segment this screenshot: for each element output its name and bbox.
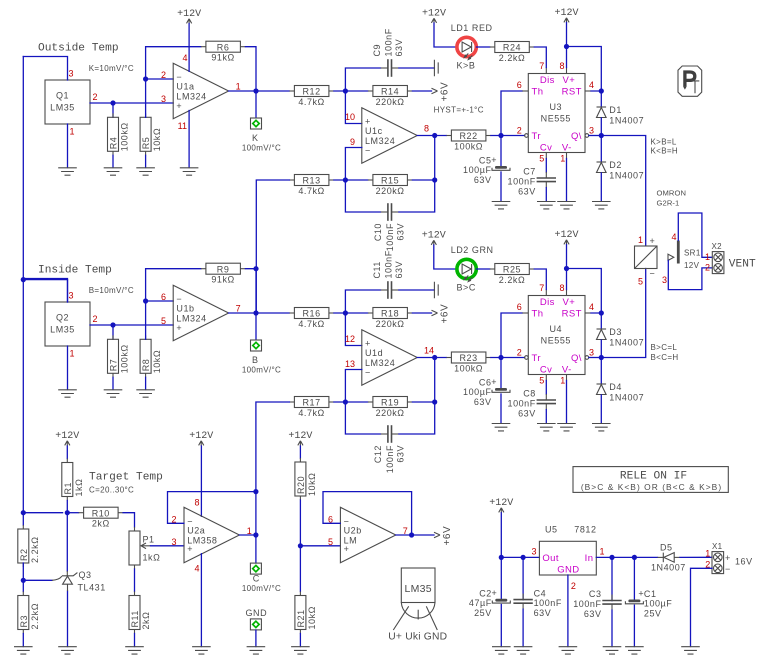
+12V supply at U2a xyxy=(189,431,213,446)
relay SR1 contact xyxy=(668,241,678,264)
svg-text:Out: Out xyxy=(542,553,559,564)
svg-text:1N4007: 1N4007 xyxy=(651,563,686,573)
svg-text:10kΩ: 10kΩ xyxy=(307,606,317,629)
wire V- pin to ground xyxy=(566,159,568,202)
svg-text:+12V: +12V xyxy=(55,431,79,442)
svg-text:220kΩ: 220kΩ xyxy=(376,97,405,107)
svg-text:1N4007: 1N4007 xyxy=(609,116,644,126)
+12V supply at U3 xyxy=(554,8,578,23)
wire U1a output to R12 xyxy=(229,90,290,92)
wire cap to AGND xyxy=(399,67,435,69)
wire R13 to Inside-Temp signal trunk xyxy=(256,180,289,313)
svg-text:+6V: +6V xyxy=(442,526,453,546)
svg-text:3: 3 xyxy=(662,275,667,285)
ground under D2 xyxy=(592,202,611,209)
svg-text:2: 2 xyxy=(517,348,522,358)
svg-text:C11: C11 xyxy=(372,261,382,279)
wire Cv pin down xyxy=(545,159,547,173)
svg-text:K: K xyxy=(252,133,259,143)
svg-text:LM35: LM35 xyxy=(404,583,431,595)
svg-text:R25: R25 xyxy=(503,265,521,275)
svg-text:+6V: +6V xyxy=(440,304,451,324)
ground under R11 xyxy=(125,647,144,654)
ground at U4 V- xyxy=(557,424,576,431)
svg-text:1N4007: 1N4007 xyxy=(609,393,644,403)
svg-text:63V: 63V xyxy=(394,39,404,57)
junction comparator +input node xyxy=(343,310,348,315)
svg-text:NE555: NE555 xyxy=(541,336,571,346)
wire U3 output to relay coil pin1 xyxy=(601,136,645,246)
junction RST/diode xyxy=(599,310,604,315)
svg-text:2: 2 xyxy=(93,92,98,102)
svg-text:OMRON: OMRON xyxy=(657,189,687,198)
svg-text:C10: C10 xyxy=(373,223,383,241)
ground at TL431 anode xyxy=(58,647,77,654)
wire C2 to ground xyxy=(500,605,502,647)
wire trunk to R2 xyxy=(22,513,24,525)
svg-text:Dis: Dis xyxy=(540,75,555,86)
svg-text:7812: 7812 xyxy=(574,525,596,535)
svg-text:2.2kΩ: 2.2kΩ xyxy=(30,603,40,630)
svg-text:R4: R4 xyxy=(109,137,119,150)
wire between input resistors xyxy=(334,312,368,314)
wire regulator input xyxy=(596,556,657,558)
capacitor C11 xyxy=(372,250,404,299)
svg-text:5: 5 xyxy=(328,537,333,547)
svg-text:Q3: Q3 xyxy=(79,570,92,580)
svg-text:100nF: 100nF xyxy=(385,223,395,251)
wire output to lower diode xyxy=(600,136,602,163)
wire node to U4 threshold xyxy=(501,313,522,358)
wire feedback resistor to output trunk xyxy=(245,47,256,91)
resistor R20 xyxy=(295,458,317,500)
ground under R3 xyxy=(14,647,33,654)
ground under R4 xyxy=(104,168,123,175)
svg-text:R14: R14 xyxy=(381,87,399,97)
svg-text:LD2 GRN: LD2 GRN xyxy=(451,245,494,255)
wire trunk to Q2 pin3 xyxy=(23,280,67,302)
svg-text:+: + xyxy=(491,588,497,598)
svg-text:C3: C3 xyxy=(589,589,602,599)
ground under C4 xyxy=(514,647,533,654)
svg-text:K>B=L: K>B=L xyxy=(651,138,677,147)
junction R9 feedback / signal trunk xyxy=(253,266,258,271)
logo PT xyxy=(678,66,702,96)
svg-text:1: 1 xyxy=(705,252,710,262)
LM35 package drawing xyxy=(388,568,447,643)
svg-text:3: 3 xyxy=(69,69,74,79)
wire R17 to Target-Temp signal trunk xyxy=(256,402,290,492)
svg-text:100µF: 100µF xyxy=(463,165,491,175)
wire +12V to V+ pin xyxy=(566,245,568,290)
junction feedback / R17 trunk xyxy=(253,489,258,494)
svg-text:RELE ON IF: RELE ON IF xyxy=(620,471,687,483)
svg-text:+: + xyxy=(365,339,371,349)
svg-text:V-: V- xyxy=(562,365,572,376)
resistor R11 xyxy=(129,592,151,634)
resistor R15 xyxy=(368,175,413,196)
resistor R4 xyxy=(108,113,130,155)
svg-text:D4: D4 xyxy=(609,382,622,392)
wire C2 top xyxy=(500,557,502,598)
+12V supply output xyxy=(489,498,513,513)
svg-text:LM35: LM35 xyxy=(50,103,75,113)
wire C1 top xyxy=(633,557,635,599)
svg-text:63V: 63V xyxy=(518,186,536,196)
capacitor C2 xyxy=(469,588,510,618)
svg-text:X1: X1 xyxy=(712,542,723,551)
junction comparator output xyxy=(432,355,437,360)
svg-text:−: − xyxy=(176,294,182,304)
wire to ground xyxy=(112,377,114,389)
resistor R3 xyxy=(18,592,40,634)
svg-text:100nF: 100nF xyxy=(573,599,601,609)
wire LED resistor to Dis pin xyxy=(534,47,546,68)
op-amp U1c xyxy=(362,108,417,163)
svg-text:3: 3 xyxy=(589,126,594,136)
svg-text:TL431: TL431 xyxy=(78,583,106,593)
svg-text:63V: 63V xyxy=(474,397,492,407)
op-amp U2b xyxy=(340,507,395,562)
wire -input up to feedback resistor xyxy=(146,269,201,301)
svg-text:+: + xyxy=(176,323,182,333)
svg-text:2: 2 xyxy=(571,581,576,591)
svg-text:2kΩ: 2kΩ xyxy=(141,612,151,630)
svg-text:2: 2 xyxy=(517,126,522,136)
wire to U1b -input xyxy=(146,300,174,302)
wire C4 to ground xyxy=(522,609,524,646)
wire X1 pin2 to ground xyxy=(691,568,713,646)
wire LED to resistor xyxy=(477,268,490,270)
svg-text:V+: V+ xyxy=(563,75,576,86)
diode D5 xyxy=(651,543,686,573)
wire timing cap to ground xyxy=(500,172,502,201)
wire C3 top xyxy=(611,557,613,600)
svg-text:2.2kΩ: 2.2kΩ xyxy=(499,53,526,63)
wire U1c output to R22 xyxy=(417,135,446,137)
junction R1/R10/TL431 xyxy=(65,510,70,515)
svg-text:U1c: U1c xyxy=(365,126,383,136)
ground under R21 xyxy=(291,647,310,654)
resistor R22 xyxy=(446,130,491,151)
svg-text:91kΩ: 91kΩ xyxy=(211,53,234,63)
svg-text:LM324: LM324 xyxy=(176,92,206,102)
wire diode to output node xyxy=(600,118,602,136)
svg-text:4: 4 xyxy=(589,80,594,90)
wire hysteresis resistor to output xyxy=(412,401,434,403)
relay SR1 coil xyxy=(635,236,658,279)
svg-text:LM324: LM324 xyxy=(365,136,395,146)
svg-text:U2b: U2b xyxy=(344,526,362,536)
svg-text:R23: R23 xyxy=(460,353,478,363)
svg-text:3: 3 xyxy=(171,537,176,547)
svg-text:U1d: U1d xyxy=(365,348,383,358)
wire to U4 trigger xyxy=(491,357,525,359)
svg-text:14: 14 xyxy=(424,346,434,356)
op-amp U1b xyxy=(173,285,228,340)
diode D2 xyxy=(597,160,645,181)
resistor R10 xyxy=(79,507,124,528)
junction hysteresis node xyxy=(432,399,437,404)
capacitor C10 xyxy=(373,203,406,251)
terminal pad K xyxy=(251,118,262,129)
svg-text:4.7kΩ: 4.7kΩ xyxy=(298,186,325,196)
svg-text:6: 6 xyxy=(517,302,522,312)
wire U4 output to relay coil pin5 xyxy=(601,269,645,358)
svg-text:8: 8 xyxy=(559,61,564,71)
+12V supply at R1 xyxy=(55,431,79,446)
wire reference node to trunk xyxy=(23,512,62,514)
wire between input resistors xyxy=(334,90,368,92)
svg-text:63V: 63V xyxy=(396,445,406,463)
timer U3 xyxy=(517,61,594,164)
wire Q2 output to U1b +input xyxy=(90,324,173,326)
svg-text:1: 1 xyxy=(70,127,75,137)
connector X2 xyxy=(712,252,724,274)
wire R3 to ground xyxy=(22,634,24,647)
svg-text:5: 5 xyxy=(161,316,166,326)
wire node to R10 xyxy=(67,512,78,514)
wire cap to AGND xyxy=(399,289,435,291)
svg-text:R18: R18 xyxy=(381,309,399,319)
ground under C1 xyxy=(625,647,644,654)
wire U1a pin11 to ground xyxy=(188,111,190,168)
ground at U3 V- xyxy=(557,202,576,209)
junction comparator +input node xyxy=(343,88,348,93)
svg-text:Q\: Q\ xyxy=(571,353,582,364)
voltage regulator U5 7812 xyxy=(539,525,596,576)
capacitor C8 xyxy=(508,389,556,419)
ground at U5 GND xyxy=(559,647,578,654)
wire Q1 pin3 to +12V trunk xyxy=(23,57,67,81)
wire between lower resistors xyxy=(334,179,368,181)
wire LED resistor to Dis pin xyxy=(534,269,546,290)
svg-text:R15: R15 xyxy=(381,176,399,186)
wire U5 GND to ground xyxy=(567,575,569,647)
svg-text:GND: GND xyxy=(245,608,267,618)
junction output trunk xyxy=(253,88,258,93)
svg-text:B=10mV/°C: B=10mV/°C xyxy=(89,286,134,295)
junction comparator -input node xyxy=(343,177,348,182)
wire +12V rail down xyxy=(500,513,502,558)
wire R8 to -input node xyxy=(145,301,147,339)
svg-text:2: 2 xyxy=(93,314,98,324)
svg-text:7: 7 xyxy=(539,61,544,71)
svg-text:100nF: 100nF xyxy=(534,598,562,608)
junction trunk / Q2 branch xyxy=(21,277,26,282)
svg-text:100µF: 100µF xyxy=(463,387,491,397)
wire divider to TL431 ref xyxy=(23,579,52,581)
wire hysteresis cap to output trunk xyxy=(399,402,435,434)
svg-text:−: − xyxy=(650,269,656,279)
resistor R5 xyxy=(140,113,162,155)
wire hysteresis to comparator output xyxy=(434,136,436,181)
svg-text:GND: GND xyxy=(557,565,579,576)
svg-text:R22: R22 xyxy=(460,131,478,141)
wire +12V to V+ pin xyxy=(566,23,568,68)
svg-text:25V: 25V xyxy=(474,608,492,618)
wire R2 to R3 xyxy=(22,563,24,592)
svg-text:2.2kΩ: 2.2kΩ xyxy=(499,275,526,285)
junction -input / feedback xyxy=(143,76,148,81)
temp sensor Q2 LM35 xyxy=(45,302,90,346)
wire divider to R21 xyxy=(299,546,301,592)
svg-text:2.2kΩ: 2.2kΩ xyxy=(30,537,40,564)
wire diode to output node xyxy=(600,340,602,358)
svg-text:U+ Uki GND: U+ Uki GND xyxy=(388,632,447,643)
ground under R5 xyxy=(136,168,155,175)
wire Q2 pin1 to ground xyxy=(67,346,69,390)
svg-text:1kΩ: 1kΩ xyxy=(74,479,84,497)
junction C4 tap xyxy=(521,555,526,560)
capacitor C5 xyxy=(463,155,510,185)
svg-text:7: 7 xyxy=(539,283,544,293)
svg-text:+: + xyxy=(650,236,656,246)
wire node to timing cap xyxy=(500,136,502,166)
svg-text:U2a: U2a xyxy=(187,526,205,536)
resistor R6 xyxy=(201,41,246,62)
svg-text:RST: RST xyxy=(562,309,582,320)
svg-text:R24: R24 xyxy=(503,43,521,53)
+6V rail arrow xyxy=(432,304,451,324)
svg-text:1N4007: 1N4007 xyxy=(609,338,644,348)
op-amp U1d xyxy=(362,330,417,385)
svg-text:10kΩ: 10kΩ xyxy=(152,128,162,151)
svg-text:4: 4 xyxy=(671,232,676,242)
svg-text:+12V: +12V xyxy=(489,498,513,509)
svg-text:K=10mV/°C: K=10mV/°C xyxy=(89,64,134,73)
svg-text:100kΩ: 100kΩ xyxy=(454,141,483,151)
wire node down to +input pin xyxy=(345,313,361,346)
wire node to timing cap xyxy=(500,358,502,388)
svg-text:4.7kΩ: 4.7kΩ xyxy=(298,319,325,329)
svg-text:R5: R5 xyxy=(141,137,151,150)
capacitor C1 xyxy=(625,589,672,619)
svg-text:+: + xyxy=(491,155,497,165)
svg-text:5: 5 xyxy=(539,154,544,164)
wire to ground xyxy=(145,377,147,389)
svg-text:10: 10 xyxy=(345,112,355,122)
wire R10 to potentiometer xyxy=(123,513,134,527)
svg-text:B<C=H: B<C=H xyxy=(651,353,679,362)
svg-text:U1b: U1b xyxy=(176,304,194,314)
svg-text:4: 4 xyxy=(182,53,187,63)
svg-text:D3: D3 xyxy=(609,327,622,337)
svg-text:91kΩ: 91kΩ xyxy=(211,275,234,285)
wire left supply trunk upper xyxy=(22,57,24,280)
svg-text:Target Temp: Target Temp xyxy=(89,472,163,484)
wire to regulator output xyxy=(501,556,539,558)
wire Cv pin down xyxy=(545,381,547,395)
svg-text:3: 3 xyxy=(69,291,74,301)
potentiometer P1 xyxy=(129,527,160,569)
svg-text:Q2: Q2 xyxy=(56,313,69,323)
resistor R21 xyxy=(295,592,317,634)
capacitor C6 xyxy=(463,377,510,407)
svg-text:4.7kΩ: 4.7kΩ xyxy=(298,408,325,418)
svg-text:1: 1 xyxy=(705,549,710,559)
junction hysteresis node xyxy=(432,177,437,182)
resistor R12 xyxy=(289,86,334,107)
svg-text:C6: C6 xyxy=(479,378,492,388)
wire RST to diode xyxy=(600,313,602,329)
diode D4 xyxy=(597,382,645,403)
wire U2a feedback xyxy=(168,492,256,524)
svg-text:+12V: +12V xyxy=(422,231,446,242)
svg-text:C4: C4 xyxy=(534,588,547,598)
svg-text:3: 3 xyxy=(161,94,166,104)
diode D1 xyxy=(597,105,645,126)
junction comparator -input node xyxy=(343,399,348,404)
svg-text:R7: R7 xyxy=(109,359,119,372)
svg-text:R9: R9 xyxy=(217,264,230,274)
+6V rail source arrow xyxy=(434,526,453,546)
resistor R9 xyxy=(201,263,246,284)
terminal pad C xyxy=(250,563,261,574)
svg-text:D1: D1 xyxy=(609,105,622,115)
svg-text:LM324: LM324 xyxy=(365,358,395,368)
ground under C2 xyxy=(492,647,511,654)
svg-text:47µF: 47µF xyxy=(469,598,492,608)
wire to ground xyxy=(145,155,147,167)
wire +12V to LED xyxy=(434,23,457,47)
junction output trunk xyxy=(253,310,258,315)
ground under D4 xyxy=(592,424,611,431)
op-amp U2a xyxy=(184,507,239,562)
svg-text:G2R-1: G2R-1 xyxy=(657,199,680,208)
svg-text:+12V: +12V xyxy=(422,9,446,20)
svg-text:25V: 25V xyxy=(644,609,662,619)
svg-text:100nF: 100nF xyxy=(385,445,395,473)
svg-text:LM: LM xyxy=(344,536,358,546)
svg-text:Th: Th xyxy=(532,87,544,98)
wire junction down to resistor xyxy=(112,325,114,339)
svg-text:+: + xyxy=(365,117,371,127)
wire +12V to U2a pin8 xyxy=(200,446,202,516)
wire R21 to ground xyxy=(299,634,301,647)
junction RST/diode xyxy=(599,88,604,93)
svg-text:+6V: +6V xyxy=(440,82,451,102)
junction trigger/threshold node xyxy=(498,133,503,138)
ground at X1 pin2 xyxy=(681,647,700,654)
svg-text:LM324: LM324 xyxy=(176,314,206,324)
svg-text:63V: 63V xyxy=(394,261,404,279)
wire U2a pin4 to ground xyxy=(200,554,202,647)
capacitor C9 xyxy=(372,28,404,77)
svg-text:C=20..30°C: C=20..30°C xyxy=(89,486,134,495)
svg-text:R3: R3 xyxy=(19,615,29,628)
junction Q1 out / R4 xyxy=(110,100,115,105)
svg-text:B: B xyxy=(252,355,259,365)
svg-text:+: + xyxy=(725,553,731,563)
svg-text:1N4007: 1N4007 xyxy=(609,171,644,181)
svg-text:K>B: K>B xyxy=(457,60,476,70)
resistor R23 xyxy=(446,352,491,373)
svg-text:1: 1 xyxy=(236,82,241,92)
svg-text:4: 4 xyxy=(589,302,594,312)
svg-text:−: − xyxy=(725,564,731,574)
wire output to terminal C xyxy=(255,535,257,563)
wire to U1a -input xyxy=(146,78,174,80)
wire U3 output xyxy=(589,135,601,137)
svg-text:C2: C2 xyxy=(479,588,492,598)
wire TL431 anode to ground xyxy=(67,591,69,647)
wire Q1 pin1 to ground xyxy=(67,124,69,168)
svg-text:Cv: Cv xyxy=(540,365,552,376)
svg-text:1: 1 xyxy=(638,235,643,245)
svg-text:Dis: Dis xyxy=(540,297,555,308)
svg-text:100mV/°C: 100mV/°C xyxy=(242,584,281,593)
